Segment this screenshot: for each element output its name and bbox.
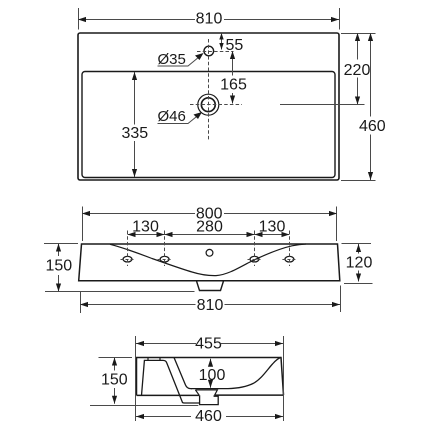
dimension 455: extension line right: [283, 336, 285, 421]
dimension 220: line: [357, 33, 359, 105]
dimension 810 bottom: extension line left: [80, 292, 82, 313]
hole centerlines horizontal: [121, 259, 297, 261]
svg-text:220: 220: [344, 62, 371, 79]
svg-text:120: 120: [346, 254, 373, 271]
dimension 150 front: line: [58, 244, 60, 292]
svg-text:810: 810: [197, 297, 224, 314]
svg-text:460: 460: [195, 408, 222, 425]
extension line top-right of plan: [341, 33, 376, 35]
extension line bottom-right of plan: [341, 180, 376, 182]
label D46 leader: [158, 113, 202, 124]
tap hole section ticks: [147, 358, 149, 361]
basin front outline: [79, 244, 340, 281]
dimension 165: line: [232, 51, 234, 104]
svg-text:Ø35: Ø35: [158, 51, 186, 68]
svg-text:460: 460: [359, 118, 386, 135]
dimension 120: extension line top: [342, 243, 372, 245]
dimension 335: line: [134, 72, 136, 177]
dimension 800: line: [82, 213, 337, 215]
dimension 460 right: line: [370, 33, 372, 180]
side bottom edge right segment: [215, 394, 284, 396]
overflow hole 3: [250, 256, 259, 262]
dimension 800: arrowheads: [82, 211, 337, 216]
dimension chain arrowheads: [128, 232, 290, 237]
dimension 55: arrowheads: [219, 33, 223, 50]
dimension 335: arrowheads: [132, 72, 137, 177]
basin inner bowl edge (plan): [82, 72, 335, 178]
svg-text:Ø46: Ø46: [158, 108, 186, 125]
svg-text:455: 455: [195, 336, 222, 353]
dimension 455: line: [136, 343, 284, 345]
dimension 165: arrowheads: [230, 51, 235, 104]
dimension 100: arrowheads: [208, 359, 213, 388]
dimension 150 side: extension line top: [99, 357, 133, 359]
horizontal centerline drain: [190, 104, 242, 106]
dimension 810 top: arrowheads: [78, 17, 339, 22]
dimension 810 top: line: [78, 19, 339, 21]
svg-text:130: 130: [132, 219, 159, 236]
label D35 leader arrowhead: [195, 53, 204, 60]
svg-text:55: 55: [226, 37, 244, 54]
dimension 455: extension line left: [135, 336, 137, 421]
dimension 150 front: arrowheads: [56, 244, 61, 292]
dimension 150 front: extension line top: [44, 243, 78, 245]
dimension 120: extension line bottom: [344, 283, 373, 285]
faucet hole circle D35: [204, 46, 214, 56]
dimension 150 side: arrowheads: [112, 358, 117, 404]
overflow hole 1: [123, 256, 132, 262]
drain pipe side: [200, 395, 219, 404]
dimension 120: arrowheads: [356, 244, 361, 282]
dimension 150 side: line: [114, 358, 116, 404]
drain hole outer circle: [198, 94, 219, 115]
drain flange side: [195, 390, 217, 395]
svg-text:100: 100: [199, 367, 226, 384]
dimension 460: line: [136, 416, 283, 418]
dimension 120: line: [358, 244, 360, 282]
vertical centerline through holes: [208, 39, 210, 141]
dimension 455: arrowheads: [136, 341, 283, 346]
horizontal centerline faucet: [197, 51, 234, 53]
dimension 810 bottom: extension line right: [340, 286, 342, 313]
label D46 leader arrowhead: [194, 112, 203, 119]
svg-text:165: 165: [220, 77, 247, 94]
drain tab front: [197, 281, 224, 291]
mounting bracket profile: [142, 360, 200, 403]
dimension 100: line: [210, 359, 212, 388]
drain hole inner circle D46: [201, 98, 215, 112]
dimension chain 130/280/130: line: [128, 234, 290, 236]
faucet hole front: [206, 249, 213, 256]
side outline left, top, right: [137, 358, 284, 396]
dimension 460: arrowheads: [136, 414, 283, 419]
dimension 810 bottom: line: [80, 304, 340, 306]
basin outer rim (plan): [78, 33, 339, 180]
hole centerlines vertical: [128, 231, 290, 267]
bowl interior bottom and front sweep: [191, 357, 281, 388]
dimension 220: arrowheads: [355, 33, 360, 105]
dimension 150 front: extension line bottom: [45, 291, 195, 293]
svg-text:150: 150: [101, 372, 128, 389]
dimension 810 top: extension line right: [339, 8, 341, 30]
dimension 810 bottom: arrowheads: [80, 302, 340, 307]
side bottom edge left segment: [137, 394, 200, 396]
basin front interior curve: [110, 244, 306, 276]
svg-text:280: 280: [196, 219, 223, 236]
svg-text:810: 810: [196, 11, 223, 28]
label D35 leader: [158, 54, 203, 66]
overflow hole 4: [285, 256, 294, 262]
bowl interior back wall: [174, 358, 192, 389]
extension line drain-center right: [280, 104, 365, 106]
svg-text:130: 130: [259, 219, 286, 236]
dimension 55: line: [221, 33, 223, 50]
dimension 810 top: extension line left: [78, 8, 80, 30]
overflow hole 2: [160, 256, 169, 262]
dimension 800: extension line right: [336, 207, 338, 242]
svg-text:335: 335: [121, 125, 148, 142]
dimension 460 right: arrowheads: [368, 33, 373, 180]
dimension 150 side: extension line bottom: [90, 405, 198, 407]
dimension 800: extension line left: [82, 207, 84, 242]
svg-text:150: 150: [45, 258, 72, 275]
